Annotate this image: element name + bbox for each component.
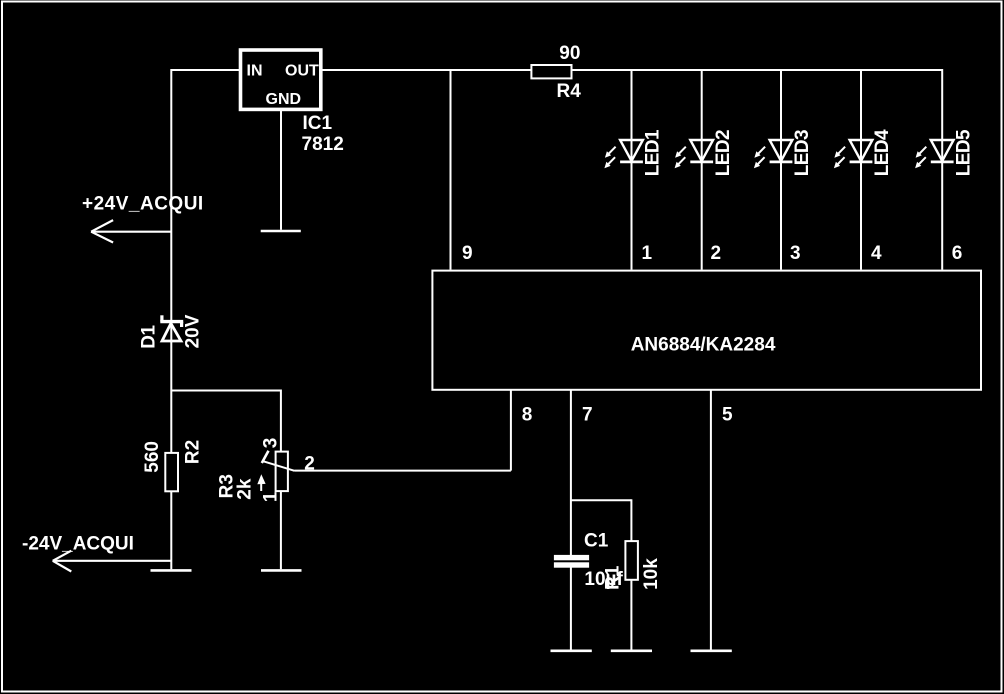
svg-text:3: 3 bbox=[261, 438, 282, 449]
svg-text:5: 5 bbox=[722, 405, 733, 426]
wire pin 5 drop bbox=[710, 390, 712, 650]
LED LED1 bbox=[604, 129, 663, 176]
node +24V_ACQUI bbox=[82, 193, 204, 242]
node -24V_ACQUI bbox=[22, 534, 172, 572]
svg-text:2: 2 bbox=[711, 243, 722, 264]
regulator IC1 7812 bbox=[241, 50, 344, 155]
svg-text:GND: GND bbox=[266, 91, 302, 108]
wire LED3 column bbox=[780, 70, 782, 270]
svg-text:+24V_ACQUI: +24V_ACQUI bbox=[82, 193, 204, 214]
LED LED4 bbox=[834, 129, 893, 176]
wire left vertical (+24V rail down) bbox=[170, 69, 172, 569]
wire LED5 column bbox=[941, 69, 943, 270]
svg-text:6: 6 bbox=[952, 243, 963, 264]
ground under C1 bbox=[551, 649, 592, 652]
svg-text:R4: R4 bbox=[557, 81, 582, 102]
wire top rail middle (OUT to R4) bbox=[323, 69, 532, 71]
svg-text:LED4: LED4 bbox=[872, 129, 893, 176]
svg-text:8: 8 bbox=[522, 405, 533, 426]
zener diode D1 20V bbox=[139, 314, 204, 348]
svg-text:IN: IN bbox=[247, 63, 263, 80]
wire pin 7 upper bbox=[570, 390, 572, 555]
wire pot bottom bbox=[280, 492, 282, 569]
svg-text:R2: R2 bbox=[183, 440, 204, 464]
svg-text:D1: D1 bbox=[139, 324, 160, 348]
svg-text:LED2: LED2 bbox=[713, 130, 734, 176]
svg-text:3: 3 bbox=[790, 243, 801, 264]
svg-text:OUT: OUT bbox=[285, 63, 319, 80]
wire R1 bottom bbox=[630, 581, 632, 650]
wire branch C1 to R1 bbox=[571, 499, 632, 501]
resistor R1 10k bbox=[603, 541, 663, 590]
ground under IC1 bbox=[261, 230, 301, 233]
svg-text:C1: C1 bbox=[584, 531, 609, 552]
wire top rail right (R4 to LED5 drop) bbox=[572, 69, 942, 71]
svg-text:7: 7 bbox=[582, 405, 593, 426]
svg-text:4: 4 bbox=[871, 243, 882, 264]
wire top rail left (IN side) bbox=[171, 69, 239, 71]
ground under R1 bbox=[611, 649, 652, 652]
svg-text:LED3: LED3 bbox=[792, 130, 813, 176]
svg-text:1: 1 bbox=[261, 491, 282, 502]
svg-text:AN6884/KA2284: AN6884/KA2284 bbox=[631, 335, 776, 356]
svg-text:-24V_ACQUI: -24V_ACQUI bbox=[22, 534, 134, 555]
svg-text:1: 1 bbox=[642, 243, 653, 264]
capacitor C1 10uf bbox=[554, 531, 624, 591]
svg-text:9: 9 bbox=[462, 243, 473, 264]
svg-text:20V: 20V bbox=[183, 314, 204, 348]
LED LED2 bbox=[675, 130, 734, 176]
resistor R4 90 bbox=[531, 43, 581, 102]
svg-text:IC1: IC1 bbox=[303, 113, 333, 134]
svg-text:LED1: LED1 bbox=[643, 129, 664, 176]
wire wiper to pin 8 bbox=[295, 470, 511, 472]
svg-text:560: 560 bbox=[142, 441, 163, 473]
wire pin 9 drop bbox=[450, 70, 452, 270]
svg-text:10k: 10k bbox=[641, 558, 662, 590]
svg-text:R1: R1 bbox=[603, 565, 624, 590]
resistor R2 560 bbox=[142, 440, 204, 491]
svg-text:2k: 2k bbox=[235, 478, 256, 500]
wire IC1 GND pin bbox=[280, 111, 282, 230]
svg-text:90: 90 bbox=[559, 43, 580, 64]
LED LED5 bbox=[915, 129, 974, 176]
wire LED1 column bbox=[631, 70, 633, 270]
wire LED4 column bbox=[860, 70, 862, 270]
IC U1 AN6884/KA2284 bbox=[432, 271, 981, 390]
wire pin 7 lower bbox=[570, 568, 572, 650]
wire LED2 column bbox=[701, 70, 703, 270]
LED LED3 bbox=[754, 130, 813, 176]
svg-text:7812: 7812 bbox=[302, 134, 344, 155]
svg-text:LED5: LED5 bbox=[953, 129, 974, 176]
potentiometer R3 2k bbox=[217, 438, 315, 502]
wire branch to potentiometer bbox=[171, 390, 281, 392]
ground under R2 bbox=[151, 569, 192, 572]
ground under pin 5 bbox=[691, 649, 732, 652]
ground under R3 bbox=[261, 569, 302, 572]
